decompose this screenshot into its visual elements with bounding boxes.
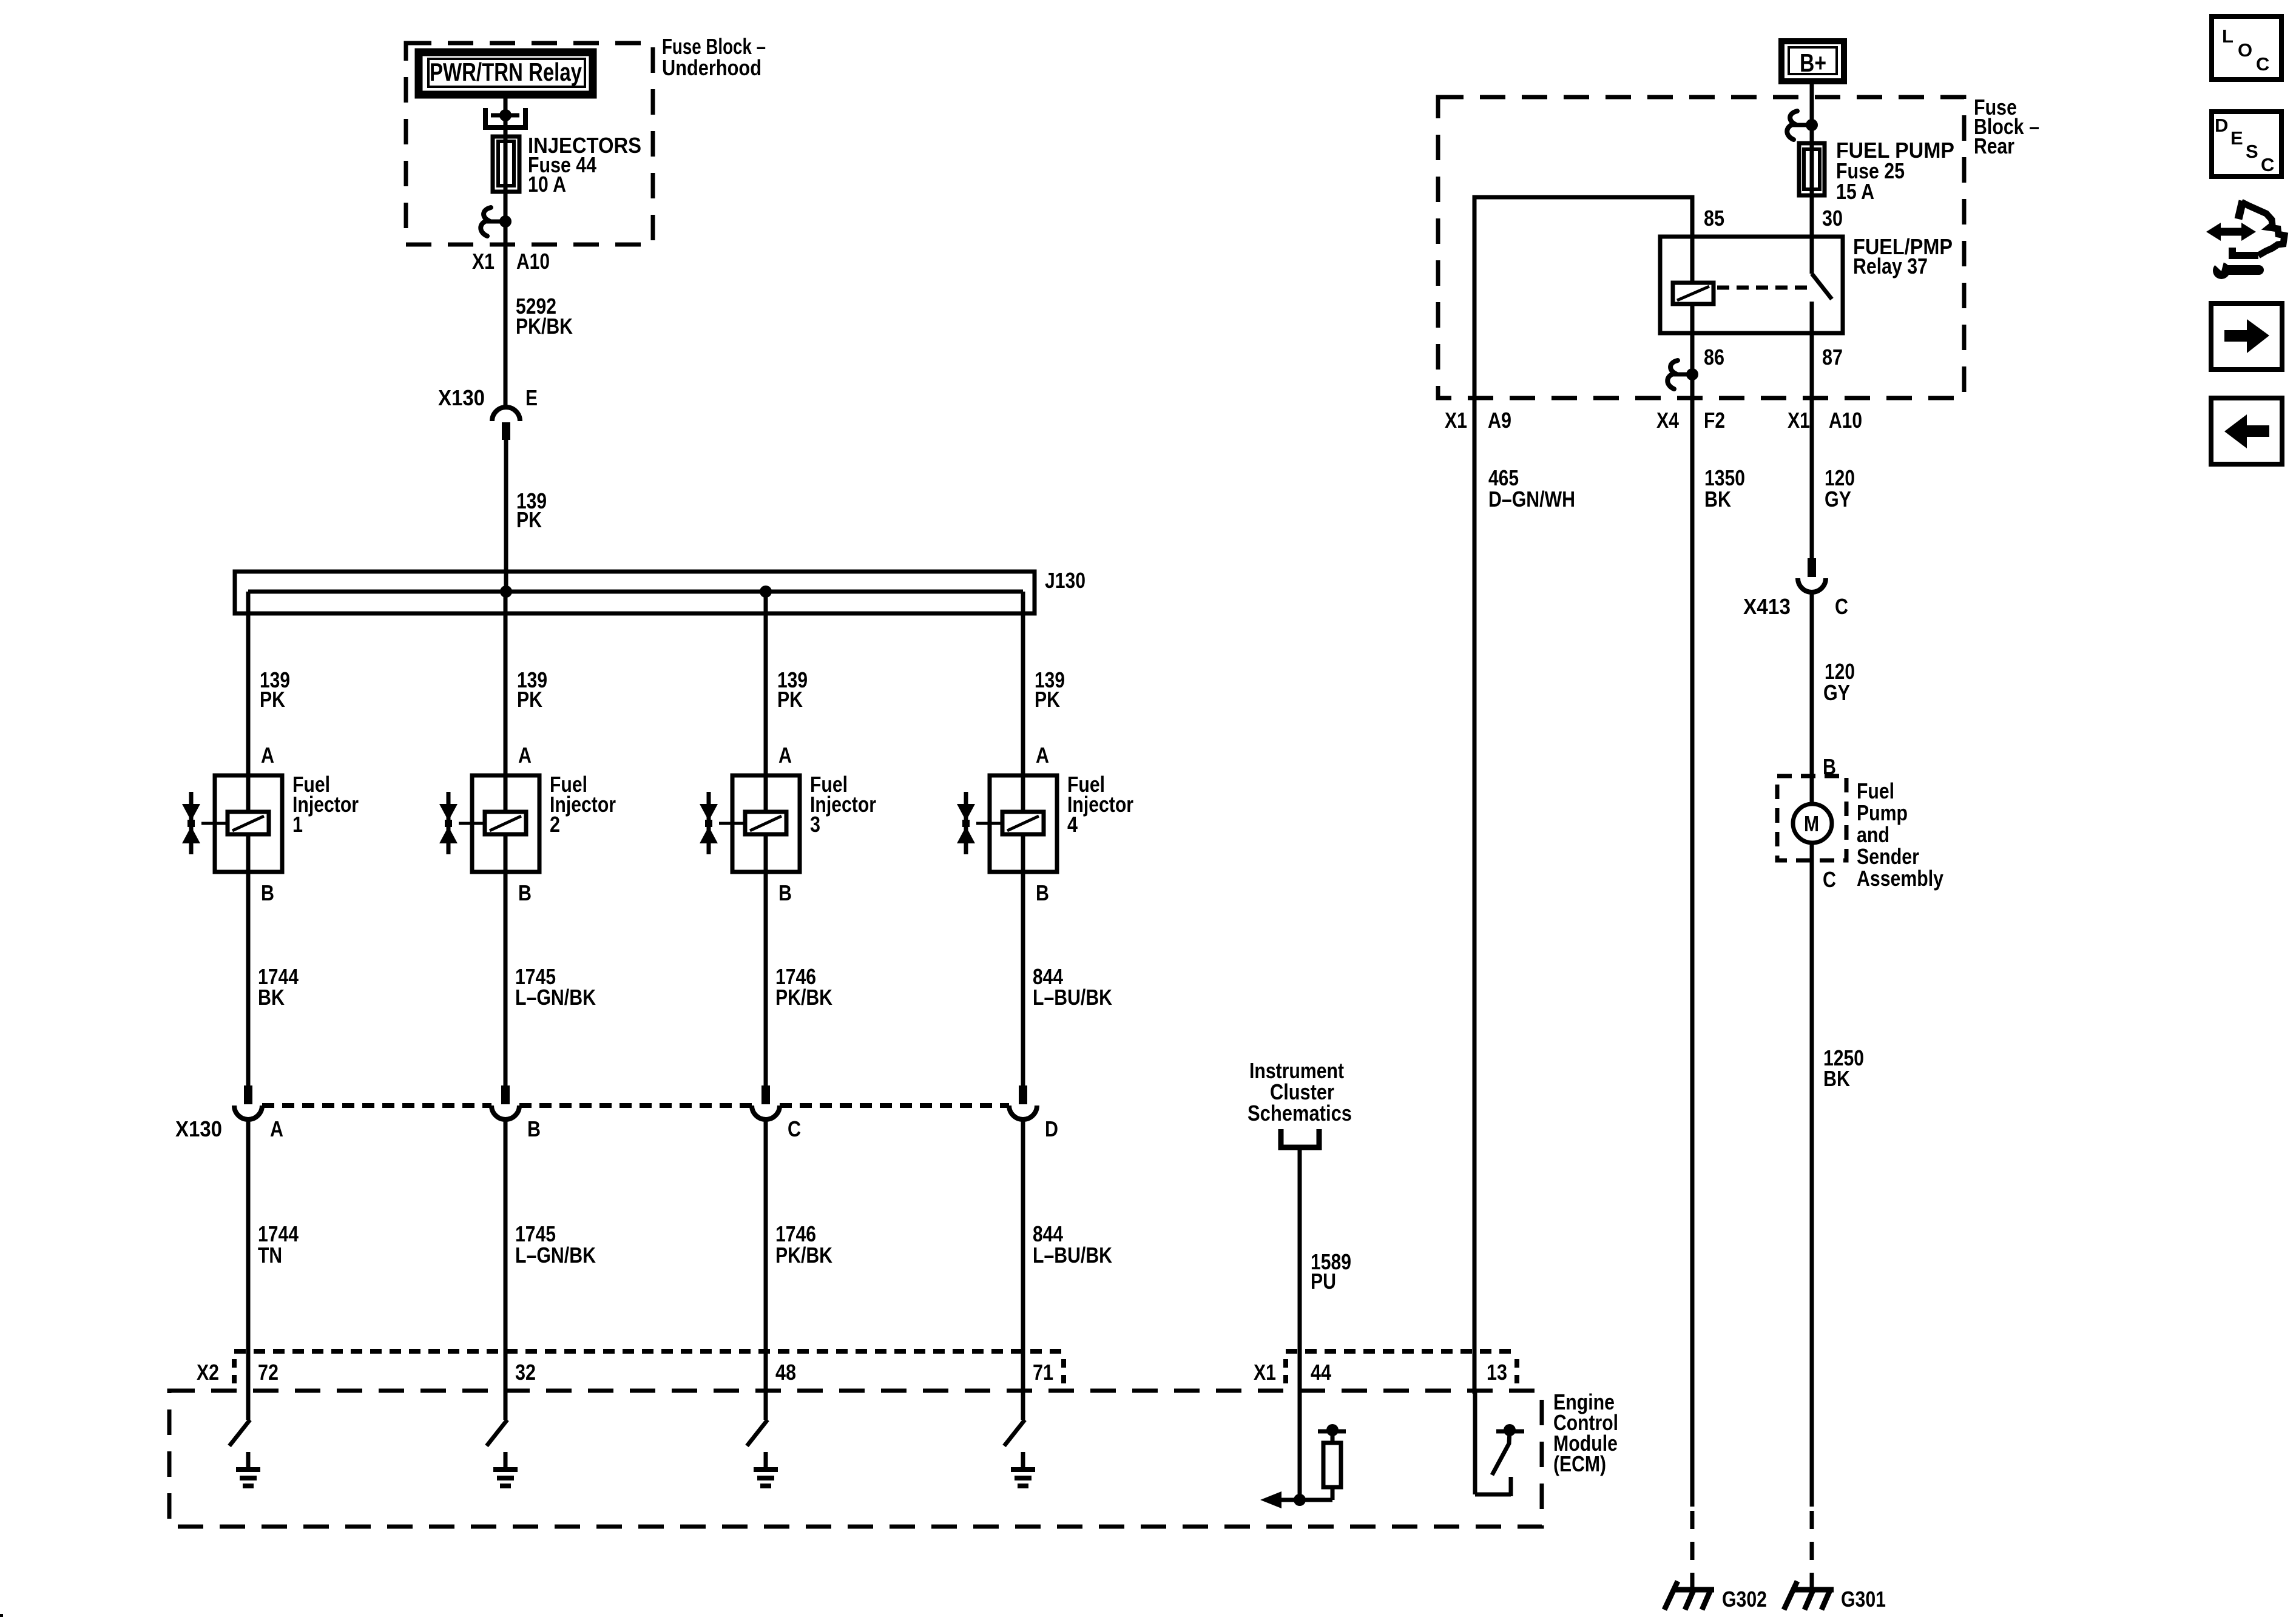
svg-text:X4: X4 (1656, 408, 1679, 433)
page corner mark (0, 1614, 3, 1617)
svg-text:Assembly: Assembly (1857, 866, 1943, 891)
injector 3 nozzle valve symbol (707, 792, 711, 854)
svg-text:X130: X130 (438, 385, 485, 410)
X130 inline connector dashed row (262, 1103, 491, 1108)
svg-text:Relay 37: Relay 37 (1853, 254, 1928, 279)
svg-text:A10: A10 (516, 249, 550, 274)
svg-text:X413: X413 (1743, 594, 1791, 619)
fuse block rear dashed box (1438, 97, 1964, 398)
svg-text:10 A: 10 A (528, 172, 566, 197)
injector 1 nozzle valve symbol (189, 792, 194, 854)
node: J130 feed junction (500, 586, 512, 598)
svg-text:15 A: 15 A (1836, 179, 1874, 204)
ECM internal: signal arrow to logic (1274, 1498, 1332, 1502)
injector 2 nozzle valve symbol (447, 792, 451, 854)
fuel injector 1 box (215, 775, 282, 872)
icon back (left arrow) button (2211, 398, 2282, 464)
fuse F44 INJECTORS body (493, 137, 519, 192)
icon LOC button (2212, 16, 2281, 79)
splice pack J130 (235, 572, 1035, 613)
svg-text:G302: G302 (1722, 1587, 1767, 1612)
ground (ECM internal) injector 2 driver (504, 1452, 508, 1469)
node: J130 injector 3 junction (760, 586, 772, 598)
wire 139 PK to splice pack (504, 439, 508, 593)
svg-text:M: M (1804, 811, 1819, 836)
svg-text:B: B (1036, 880, 1049, 905)
svg-text:1: 1 (292, 812, 303, 837)
ground G302 (1672, 1587, 1714, 1593)
ECM driver switch for injector 2 (504, 1394, 508, 1420)
svg-text:Underhood: Underhood (662, 55, 761, 80)
wire 844 L–BU/BK injector 4 to X130 (1021, 872, 1025, 1086)
svg-text:A: A (261, 743, 274, 768)
svg-text:X130: X130 (175, 1116, 222, 1141)
svg-text:L–BU/BK: L–BU/BK (1033, 985, 1112, 1010)
svg-text:D: D (2215, 115, 2228, 136)
fuse F25 FUEL PUMP body (1799, 143, 1825, 195)
relay 37 coil (1673, 283, 1714, 304)
ECM internal: pin 44 wire to sense node (1298, 1391, 1302, 1500)
svg-text:GY: GY (1823, 680, 1850, 705)
injector 2 coil (504, 777, 508, 812)
fuse 44 bottom clip terminal (481, 208, 491, 236)
ground wire dashed G301 (1810, 1511, 1814, 1590)
svg-text:PK: PK (260, 687, 285, 712)
svg-text:Sender: Sender (1857, 844, 1919, 869)
injector 4 nozzle valve symbol (964, 792, 968, 854)
ECM driver switch for injector 3 (764, 1394, 768, 1420)
svg-text:BK: BK (1704, 487, 1731, 511)
ground wire dashed G302 (1690, 1511, 1695, 1590)
relay FUEL/PMP Relay 37 box (1660, 237, 1843, 333)
wire: B+ to fuse 25 (1810, 81, 1814, 274)
svg-text:E: E (525, 385, 538, 410)
svg-text:O: O (2238, 39, 2252, 61)
wire 139 PK branch to injector 2 (504, 592, 508, 777)
svg-text:A9: A9 (1488, 408, 1511, 433)
svg-text:(ECM): (ECM) (1553, 1451, 1606, 1476)
connector X130 A (244, 1085, 252, 1104)
svg-text:D: D (1045, 1116, 1058, 1141)
svg-text:Pump: Pump (1857, 800, 1908, 825)
injector 1 coil (246, 777, 251, 812)
svg-text:G301: G301 (1841, 1587, 1886, 1612)
svg-text:D–GN/WH: D–GN/WH (1488, 487, 1575, 511)
svg-text:32: 32 (515, 1360, 536, 1385)
svg-text:GY: GY (1825, 487, 1851, 511)
wire 139 PK branch to injector 3 (764, 592, 768, 777)
svg-text:30: 30 (1822, 206, 1843, 231)
svg-text:L–GN/BK: L–GN/BK (515, 1243, 596, 1268)
svg-text:PK/BK: PK/BK (516, 314, 573, 339)
svg-text:A10: A10 (1829, 408, 1862, 433)
svg-text:A: A (1036, 743, 1049, 768)
svg-text:3: 3 (810, 812, 820, 837)
wire 1745 L–GN/BK X130 to ECM pin 32 (504, 1119, 508, 1394)
ground (ECM internal) injector 4 driver (1021, 1452, 1025, 1469)
svg-text:4: 4 (1067, 812, 1078, 837)
svg-text:C: C (788, 1116, 801, 1141)
relay PWR/TRN Relay box (419, 52, 593, 95)
fuse block X4 F2 clip terminal (1667, 360, 1678, 389)
wire 844 L–BU/BK X130 to ECM pin 71 (1021, 1119, 1025, 1394)
relay 37 coil-contact dashed link (1717, 286, 1809, 290)
ground (ECM internal) injector 1 driver (246, 1452, 251, 1469)
ECM driver switch for injector 4 (1021, 1394, 1025, 1420)
wire: PWR/TRN relay to fuse 44 (504, 98, 508, 408)
battery feed B+ box (1781, 41, 1844, 81)
Engine Control Module dashed box (169, 1391, 1542, 1527)
svg-text:E: E (2230, 127, 2243, 149)
svg-text:72: 72 (258, 1360, 279, 1385)
svg-text:X1: X1 (472, 249, 495, 274)
svg-text:TN: TN (258, 1243, 282, 1268)
icon component locator (panel outline) (2238, 201, 2243, 219)
svg-text:S: S (2246, 141, 2258, 162)
fuse 44 top clip terminal (483, 108, 488, 128)
svg-text:71: 71 (1033, 1360, 1053, 1385)
svg-text:C: C (2256, 53, 2269, 75)
wire: relay pin 87 (1810, 302, 1814, 559)
relay 37 switch contact (1812, 274, 1832, 299)
svg-text:B: B (778, 880, 792, 905)
svg-text:J130: J130 (1045, 568, 1086, 593)
svg-text:B+: B+ (1800, 49, 1826, 77)
svg-text:2: 2 (550, 812, 560, 837)
fuel injector 4 box (990, 775, 1057, 872)
svg-text:Rear: Rear (1974, 133, 2014, 158)
svg-text:PK: PK (517, 687, 542, 712)
svg-text:44: 44 (1311, 1360, 1331, 1385)
wire 1746 PK/BK injector 3 to X130 (764, 872, 768, 1086)
injector 3 coil (764, 777, 768, 812)
svg-text:PU: PU (1311, 1269, 1336, 1294)
svg-text:B: B (261, 880, 274, 905)
svg-text:PK/BK: PK/BK (775, 985, 832, 1010)
svg-text:L: L (2222, 25, 2234, 47)
wire 1746 PK/BK X130 to ECM pin 48 (764, 1119, 768, 1394)
svg-text:A: A (778, 743, 792, 768)
connector X130 B (501, 1085, 510, 1104)
fuel injector 3 box (732, 775, 800, 872)
ground G301 (1792, 1587, 1834, 1593)
ECM driver switch for injector 1 (246, 1394, 251, 1420)
connector X130 C (761, 1085, 770, 1104)
svg-text:A: A (518, 743, 532, 768)
svg-text:F2: F2 (1704, 408, 1725, 433)
icon component locator wrench (2213, 262, 2230, 279)
wire 1589 PU to ECM pin 44 (1298, 1147, 1302, 1394)
wire 120 GY to fuel pump (1810, 592, 1814, 804)
svg-text:C: C (2261, 154, 2274, 175)
icon DESC button (2212, 112, 2281, 177)
svg-text:BK: BK (258, 985, 285, 1010)
svg-text:PWR/TRN Relay: PWR/TRN Relay (430, 58, 582, 86)
svg-text:C: C (1835, 594, 1848, 619)
svg-text:B: B (527, 1116, 541, 1141)
svg-text:PK: PK (516, 507, 542, 532)
svg-text:L–GN/BK: L–GN/BK (515, 985, 596, 1010)
wire: relay pin 85 feed (1474, 197, 1692, 398)
svg-text:85: 85 (1704, 206, 1724, 231)
wire: relay pin 86 to X4 F2 (1690, 304, 1695, 1507)
fuse block underhood dashed box (406, 43, 653, 245)
wire 139 PK branch to injector 1 (246, 592, 251, 777)
ECM X2 pin row dotted line (234, 1349, 1068, 1354)
wire 1745 L–GN/BK injector 2 to X130 (504, 872, 508, 1086)
ECM X1 pin row dotted line (1286, 1349, 1517, 1354)
svg-text:C: C (1823, 867, 1836, 892)
svg-text:A: A (270, 1116, 283, 1141)
svg-text:PK/BK: PK/BK (775, 1243, 832, 1268)
svg-text:Fuel: Fuel (1857, 778, 1894, 803)
svg-text:87: 87 (1822, 345, 1843, 370)
svg-text:L–BU/BK: L–BU/BK (1033, 1243, 1112, 1268)
wire: X1 A9 to ECM pin 13 (1473, 398, 1477, 1394)
svg-text:X1: X1 (1445, 408, 1467, 433)
wire 139 PK branch to injector 4 (1021, 592, 1025, 777)
fuel pump and sender assembly dashed box (1777, 776, 1846, 860)
svg-text:86: 86 (1704, 345, 1724, 370)
connector X413 C (1808, 558, 1816, 577)
icon next (right arrow) button (2211, 303, 2282, 370)
svg-text:X1: X1 (1788, 408, 1810, 433)
svg-text:13: 13 (1487, 1360, 1507, 1385)
fuel injector 2 box (472, 775, 539, 872)
svg-text:B: B (518, 880, 532, 905)
injector 4 coil (1021, 777, 1025, 812)
fuel pump motor M (1793, 804, 1832, 843)
connector X130 D (1019, 1085, 1027, 1104)
ECM internal: fuel pump relay driver switch (pin 13) (1473, 1391, 1477, 1494)
svg-text:X2: X2 (197, 1360, 219, 1385)
ECM internal: pull-up resistor on pin 44 (1318, 1430, 1346, 1434)
connector X130 E (492, 407, 520, 421)
icon component locator double arrow (2220, 228, 2243, 236)
svg-text:PK: PK (777, 687, 803, 712)
svg-text:Schematics: Schematics (1248, 1101, 1352, 1126)
svg-text:48: 48 (775, 1360, 796, 1385)
wire 1744 BK injector 1 to X130 (246, 872, 251, 1086)
svg-text:BK: BK (1823, 1066, 1850, 1091)
svg-text:PK: PK (1035, 687, 1060, 712)
ground (ECM internal) injector 3 driver (764, 1452, 768, 1469)
svg-text:and: and (1857, 822, 1889, 847)
fuse 25 top clip terminal (1787, 111, 1797, 140)
svg-text:X1: X1 (1254, 1360, 1276, 1385)
wire 1250 BK to G301 (1810, 843, 1814, 1507)
wire 1744 TN X130 to ECM pin 72 (246, 1119, 251, 1394)
